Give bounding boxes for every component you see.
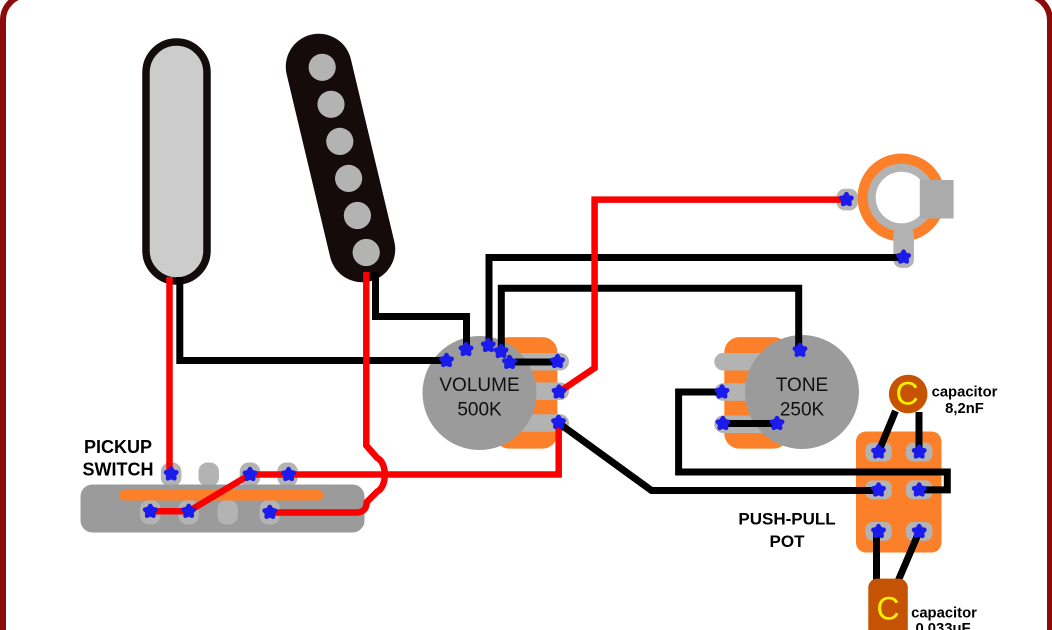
node: switch bottom lug 2 bbox=[183, 506, 193, 516]
wire: bridge pickup red to switch with hop bbox=[270, 272, 385, 513]
node: switch bottom lug 4 bbox=[265, 507, 275, 517]
node: volume bottom lug bbox=[553, 417, 563, 427]
node: switch bottom lug 1 bbox=[145, 506, 155, 516]
node: tone top casing bbox=[795, 345, 805, 355]
node: volume casing 1 bbox=[441, 355, 451, 365]
node: volume casing 5 bbox=[504, 357, 514, 367]
node: volume middle lug bbox=[554, 387, 564, 397]
svg-text:250K: 250K bbox=[780, 400, 825, 421]
wire: volume casing to volume top lug bbox=[509, 359, 558, 366]
svg-text:8,2nF: 8,2nF bbox=[945, 401, 984, 417]
wire: neck pickup black to volume casing bbox=[180, 277, 446, 361]
node: push-pull lug 3 bbox=[873, 485, 883, 495]
wire: volume casing to tone casing bbox=[501, 288, 798, 352]
svg-text:capacitor: capacitor bbox=[911, 606, 977, 622]
capacitor C1 8,2nF bbox=[879, 375, 928, 452]
bridge pickup P2 bbox=[279, 27, 402, 289]
volume pot R1 body bbox=[423, 336, 570, 450]
node: volume top lug bbox=[552, 356, 562, 366]
svg-text:VOLUME: VOLUME bbox=[439, 375, 519, 396]
wire: volume bottom lug to push-pull middle-left lug bbox=[559, 423, 879, 490]
wire: tone bottom lug ground to casing bbox=[723, 420, 777, 427]
wire: switch jumper red bbox=[150, 475, 250, 512]
node: push-pull lug 6 bbox=[914, 526, 924, 536]
wire: bridge pickup black to volume casing bbox=[376, 272, 467, 348]
node: tone casing ground bbox=[772, 418, 782, 428]
node: push-pull lug 4 bbox=[914, 485, 924, 495]
neck pickup P1 bbox=[146, 42, 207, 281]
pickup switch SW1 body bbox=[81, 463, 365, 533]
wire: switch to volume bottom lug red bbox=[250, 423, 559, 475]
node: switch top lug 1 bbox=[166, 469, 176, 479]
svg-text:500K: 500K bbox=[457, 400, 502, 421]
svg-text:POT: POT bbox=[770, 532, 806, 551]
svg-text:0,033uF: 0,033uF bbox=[915, 621, 970, 630]
node: volume casing 3 bbox=[483, 340, 493, 350]
node: volume casing 2 bbox=[461, 344, 471, 354]
capacitor C2 0,033uF bbox=[868, 532, 919, 630]
wire: volume casing to jack sleeve bbox=[489, 258, 904, 349]
node: jack tip bbox=[841, 194, 851, 204]
output jack J1 body bbox=[837, 154, 954, 268]
node: push-pull lug 2 bbox=[914, 447, 924, 457]
tone pot R2 body bbox=[714, 335, 859, 449]
wire: tone middle lug to push-pull middle-right lug bbox=[679, 392, 948, 490]
node: tone middle lug bbox=[717, 387, 727, 397]
node: tone bottom lug bbox=[718, 418, 728, 428]
svg-text:SWITCH: SWITCH bbox=[83, 460, 154, 480]
svg-text:C: C bbox=[895, 376, 918, 412]
svg-text:capacitor: capacitor bbox=[932, 385, 998, 401]
node: switch top lug 3 bbox=[245, 469, 255, 479]
node: push-pull lug 1 bbox=[873, 447, 883, 457]
svg-text:PUSH-PULL: PUSH-PULL bbox=[738, 509, 835, 528]
wire: jack tip red to volume middle lug bbox=[559, 200, 846, 392]
node: switch top lug 4 bbox=[283, 469, 293, 479]
node: jack sleeve bbox=[898, 252, 908, 262]
push-pull pot R3 body bbox=[856, 432, 942, 553]
wire: neck pickup red to switch bbox=[166, 277, 173, 472]
node: volume casing 4 bbox=[496, 346, 506, 356]
svg-text:C: C bbox=[876, 591, 899, 627]
svg-text:TONE: TONE bbox=[776, 375, 828, 396]
svg-text:PICKUP: PICKUP bbox=[84, 437, 152, 457]
node: push-pull lug 5 bbox=[873, 526, 883, 536]
